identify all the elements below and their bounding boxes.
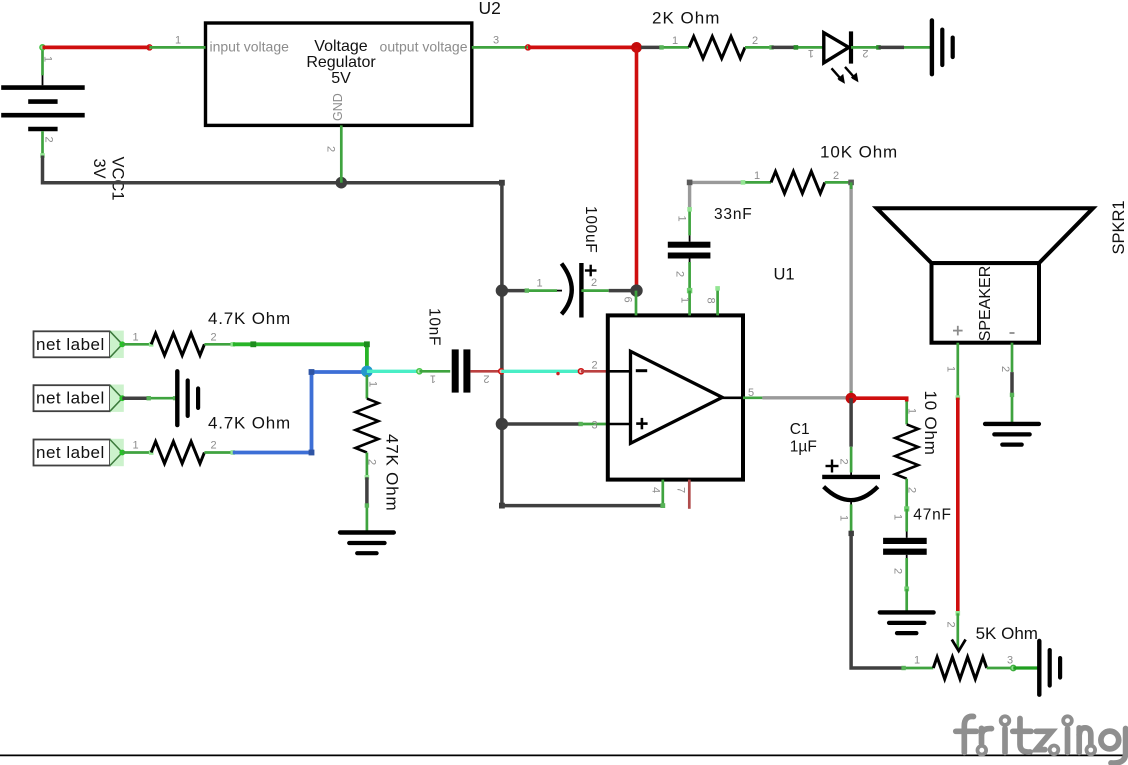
wire node OUT to R10 (red) (851, 398, 907, 401)
svg-text:Voltage: Voltage (314, 38, 367, 55)
node OUT junction (red) (846, 393, 857, 404)
capacitor C 10nF plates (452, 349, 471, 392)
wire node V5 down to C-100uF node (red) (635, 47, 639, 290)
resistor 4.7K (top) pin 1 leg (122, 342, 153, 347)
ground pin leg (47K) (365, 503, 369, 531)
potentiometer 5K pin 3 leg (987, 665, 1016, 670)
capacitor C 47nF plates (883, 538, 927, 555)
junction node at regulator GND (336, 177, 348, 189)
capacitor 10nF pin 1 leg (419, 370, 450, 373)
wire battery pin1 to U2 input (red) (43, 45, 153, 50)
ground symbol (47K) (340, 533, 394, 554)
svg-text:5K Ohm: 5K Ohm (976, 624, 1038, 643)
resistor R 47K Ohm (355, 399, 378, 453)
svg-text:2: 2 (833, 170, 839, 182)
resistor R 4.7K Ohm (top) (151, 333, 204, 355)
svg-text:1: 1 (537, 278, 543, 290)
svg-text:1: 1 (679, 297, 691, 303)
speaker pin 1 leg (956, 343, 961, 400)
svg-text:2: 2 (43, 137, 55, 143)
resistor R 10K Ohm (771, 171, 825, 193)
svg-text:2: 2 (592, 360, 598, 372)
junction node on GND rail at 100uF (496, 284, 508, 296)
ground symbol (LED, rotated) (932, 20, 953, 74)
svg-text:3: 3 (493, 35, 499, 47)
U2 text title (306, 38, 376, 87)
capacitor 33nF pin 2 leg (689, 259, 691, 291)
wire speaker pin1 to potentiometer wiper (red) (956, 398, 961, 616)
potentiometer R 5K Ohm body (933, 657, 986, 679)
resistor R 4.7K Ohm (bottom) (151, 442, 204, 464)
svg-text:2: 2 (862, 47, 868, 59)
wire GND rail to op-amp pin3 (dark) (502, 422, 581, 426)
wire net2 to ground (dark) (122, 396, 148, 400)
ground pin leg (net2) (147, 396, 178, 400)
svg-text:GND: GND (331, 93, 345, 121)
battery pin 2 leg (40, 131, 45, 158)
bendpoint below C1 (849, 531, 854, 536)
wire R10K pin2 down to output node (gray) (848, 180, 854, 399)
wire GND rail vertical (500, 183, 504, 506)
resistor 4.7K (bottom) pin 2 leg (204, 450, 235, 455)
U2 pin 2 leg (GND) (340, 125, 343, 182)
fritzing logo (956, 716, 1126, 763)
speaker pin 2 leg (1011, 343, 1014, 372)
svg-text:2: 2 (325, 146, 337, 152)
svg-text:47nF: 47nF (913, 507, 952, 524)
svg-text:1: 1 (430, 372, 436, 384)
ground pin leg (47nF) (905, 589, 908, 613)
speaker minus mark (1010, 332, 1015, 334)
wire node A to C10nF pin1 (cyan) (367, 369, 422, 374)
op-amp pin 2 leg (red) (581, 370, 608, 373)
U2 pin 3 leg (output) (472, 45, 531, 50)
wire node OUT to C1 (dark) (849, 398, 853, 447)
capacitor 100uF pin 1 leg (525, 288, 562, 292)
svg-text:1: 1 (42, 56, 54, 62)
resistor 2K pin 2 leg (745, 45, 774, 49)
bendpoint at GND rail bottom corner (499, 503, 505, 509)
svg-text:1: 1 (808, 47, 814, 59)
battery pin 1 leg (40, 45, 45, 76)
speaker SPKR1 horn (877, 208, 1093, 263)
resistor 4.7K (top) pin 2 leg (204, 342, 235, 347)
op-amp pin 7 leg (unconnected) (688, 480, 691, 509)
voltage regulator U2 body (206, 23, 472, 125)
potentiometer wiper pin 2 (952, 613, 966, 651)
svg-text:SPEAKER: SPEAKER (977, 266, 994, 342)
svg-text:4: 4 (650, 487, 662, 493)
svg-text:C1: C1 (790, 421, 810, 438)
wire battery pin2 to GND rail (43, 156, 502, 183)
svg-text:2: 2 (892, 568, 904, 574)
wire R47K to ground (dark) (365, 477, 369, 505)
resistor 47K pin 2 leg (365, 453, 370, 480)
capacitor 10nF pin 2 leg (red) (470, 369, 504, 374)
svg-text:U2: U2 (479, 0, 501, 18)
svg-text:2: 2 (999, 366, 1011, 372)
net label 2 box (34, 385, 126, 412)
net label 1 box (34, 331, 126, 358)
node A junction (blue) (361, 366, 373, 378)
wire GND rail to op-amp pin4 (dark) (502, 504, 663, 508)
svg-text:100uF: 100uF (582, 206, 599, 253)
wire LED to ground (dark) (879, 46, 905, 50)
wire C10nF pin2 to op-amp pin2 (cyan) (501, 369, 583, 376)
svg-text:3: 3 (1007, 655, 1013, 667)
op-amp pin 3 leg (578, 422, 607, 426)
svg-text:33nF: 33nF (714, 206, 753, 223)
resistor 10K pin 2 leg (825, 181, 851, 184)
capacitor C1 plates (polarized) (822, 460, 880, 501)
svg-text:2: 2 (906, 487, 918, 493)
svg-text:3: 3 (592, 420, 598, 432)
resistor 4.7K (bottom) pin 1 leg (122, 450, 153, 455)
ground symbol (net2, rotated) (177, 371, 198, 425)
LED D1 triangle and cathode (824, 31, 851, 63)
wire U2 output to node V5 (red) (528, 46, 637, 50)
svg-text:2: 2 (838, 459, 850, 465)
svg-text:2K Ohm: 2K Ohm (652, 9, 720, 28)
U2 pin 1 leg (input) (150, 46, 206, 49)
op-amp pin 4 leg (660, 480, 665, 508)
junction node at op-amp pin 6 (630, 284, 642, 296)
svg-text:2: 2 (945, 622, 957, 628)
svg-text:1: 1 (367, 381, 379, 387)
svg-text:Regulator: Regulator (306, 54, 376, 71)
resistor R 10 Ohm (895, 424, 918, 478)
svg-text:VCC1: VCC1 (109, 157, 127, 201)
speaker plus mark (953, 326, 963, 336)
resistor R 2K Ohm (689, 36, 745, 58)
capacitor 33nF pin 1 leg (687, 207, 692, 242)
label C1 1uF (790, 421, 817, 456)
bendpoint at GND rail corner (499, 180, 505, 186)
svg-text:8: 8 (705, 298, 717, 304)
capacitor C1 pin 2 leg (850, 447, 853, 477)
svg-text:U1: U1 (774, 266, 795, 284)
node op-amp pin1 junction (green) (687, 288, 692, 293)
svg-text:2: 2 (674, 271, 686, 277)
svg-text:10 Ohm: 10 Ohm (921, 391, 940, 456)
wire pot pin3 to ground (green) (1013, 666, 1039, 669)
op-amp U1 body (608, 315, 743, 479)
resistor 10K pin 1 leg (741, 180, 771, 185)
svg-text:1: 1 (945, 366, 957, 372)
svg-text:1: 1 (133, 440, 139, 452)
svg-text:3V: 3V (90, 159, 108, 179)
wire C33n pin1 to R10K pin1 (gray) (687, 180, 743, 210)
op-amp pin 6 leg (635, 291, 638, 316)
op-amp pin 1 leg (688, 291, 691, 316)
wire R4.7K bottom to node (blue) (233, 369, 367, 455)
wire node V5 to R-2K (dark) (641, 46, 662, 50)
resistor 10 Ohm pin 2 leg (905, 479, 908, 509)
svg-text:output voltage: output voltage (380, 39, 468, 55)
node R10-C47n junction (green) (904, 506, 909, 511)
resistor 47K pin 1 leg (366, 375, 369, 399)
wire R4.7K top to node (bright green) (233, 341, 370, 371)
op-amp pin 5 leg (output) (743, 396, 762, 399)
svg-text:1: 1 (914, 655, 920, 667)
wire R2K to LED (dark) (772, 46, 798, 50)
node V5 junction (631, 42, 642, 53)
LED pin 2 leg (851, 45, 881, 50)
junction node on GND rail at pin3 (496, 418, 508, 430)
resistor 2K pin 1 leg (659, 45, 689, 49)
svg-text:1: 1 (133, 331, 139, 343)
capacitor 100uF pin 2 leg (581, 289, 608, 292)
capacitor C 33nF plates (668, 242, 711, 259)
svg-text:1: 1 (175, 35, 181, 47)
svg-text:2: 2 (211, 331, 217, 343)
wire GND rail to C100uF (dark) (502, 289, 527, 293)
svg-text:10nF: 10nF (426, 308, 443, 346)
svg-text:47K Ohm: 47K Ohm (383, 434, 402, 511)
svg-text:net label: net label (36, 389, 105, 408)
capacitor 47nF pin 2 leg (904, 555, 909, 592)
ground pin leg (speaker) (1010, 393, 1014, 424)
svg-text:SPKR1: SPKR1 (1110, 200, 1128, 254)
svg-text:10K Ohm: 10K Ohm (820, 143, 898, 162)
page bottom rule (0, 754, 1128, 756)
svg-text:2: 2 (483, 372, 489, 384)
capacitor C 100uF plates (polarized) (562, 263, 597, 318)
svg-text:1: 1 (754, 170, 760, 182)
resistor 10 Ohm pin 1 leg (905, 402, 908, 425)
svg-text:6: 6 (622, 297, 634, 303)
wire C1 to potentiometer (dark) (851, 533, 904, 668)
svg-text:1µF: 1µF (790, 439, 817, 456)
ground pin leg (LED) (904, 46, 930, 49)
svg-text:4.7K Ohm: 4.7K Ohm (208, 309, 291, 328)
svg-text:7: 7 (675, 487, 687, 493)
ground symbol (speaker) (985, 424, 1039, 445)
svg-text:5V: 5V (331, 70, 351, 87)
battery VCC1 plates (1, 75, 85, 130)
svg-text:1: 1 (676, 216, 688, 222)
op-amp pin 8 leg (715, 286, 720, 315)
svg-text:input voltage: input voltage (210, 39, 290, 55)
svg-text:2: 2 (752, 35, 758, 47)
capacitor C1 pin 1 leg (850, 500, 852, 533)
svg-text:2: 2 (211, 440, 217, 452)
speaker SPKR1 body (932, 263, 1040, 343)
wire op-amp output to node OUT (gray) (762, 396, 851, 399)
svg-text:1: 1 (906, 408, 918, 414)
ground symbol (pot, rotated) (1039, 641, 1060, 695)
svg-text:5: 5 (748, 387, 754, 399)
svg-text:net label: net label (36, 443, 105, 462)
capacitor 47nF pin 1 leg (905, 509, 908, 538)
svg-text:4.7K Ohm: 4.7K Ohm (208, 414, 291, 433)
svg-text:2: 2 (591, 277, 597, 289)
ground symbol (47nF) (880, 612, 934, 633)
potentiometer 5K pin 1 leg (901, 666, 933, 670)
svg-text:1: 1 (892, 514, 904, 520)
wire speaker pin2 to ground (dark) (1010, 372, 1014, 395)
svg-text:net label: net label (36, 335, 105, 354)
svg-text:1: 1 (838, 515, 850, 521)
LED pin 1 leg (794, 45, 824, 50)
svg-text:2: 2 (366, 459, 378, 465)
svg-text:1: 1 (672, 35, 678, 47)
LED emission arrows (832, 67, 859, 84)
net label 3 box (34, 439, 126, 466)
wire C100uF to node (dark) (609, 289, 637, 293)
